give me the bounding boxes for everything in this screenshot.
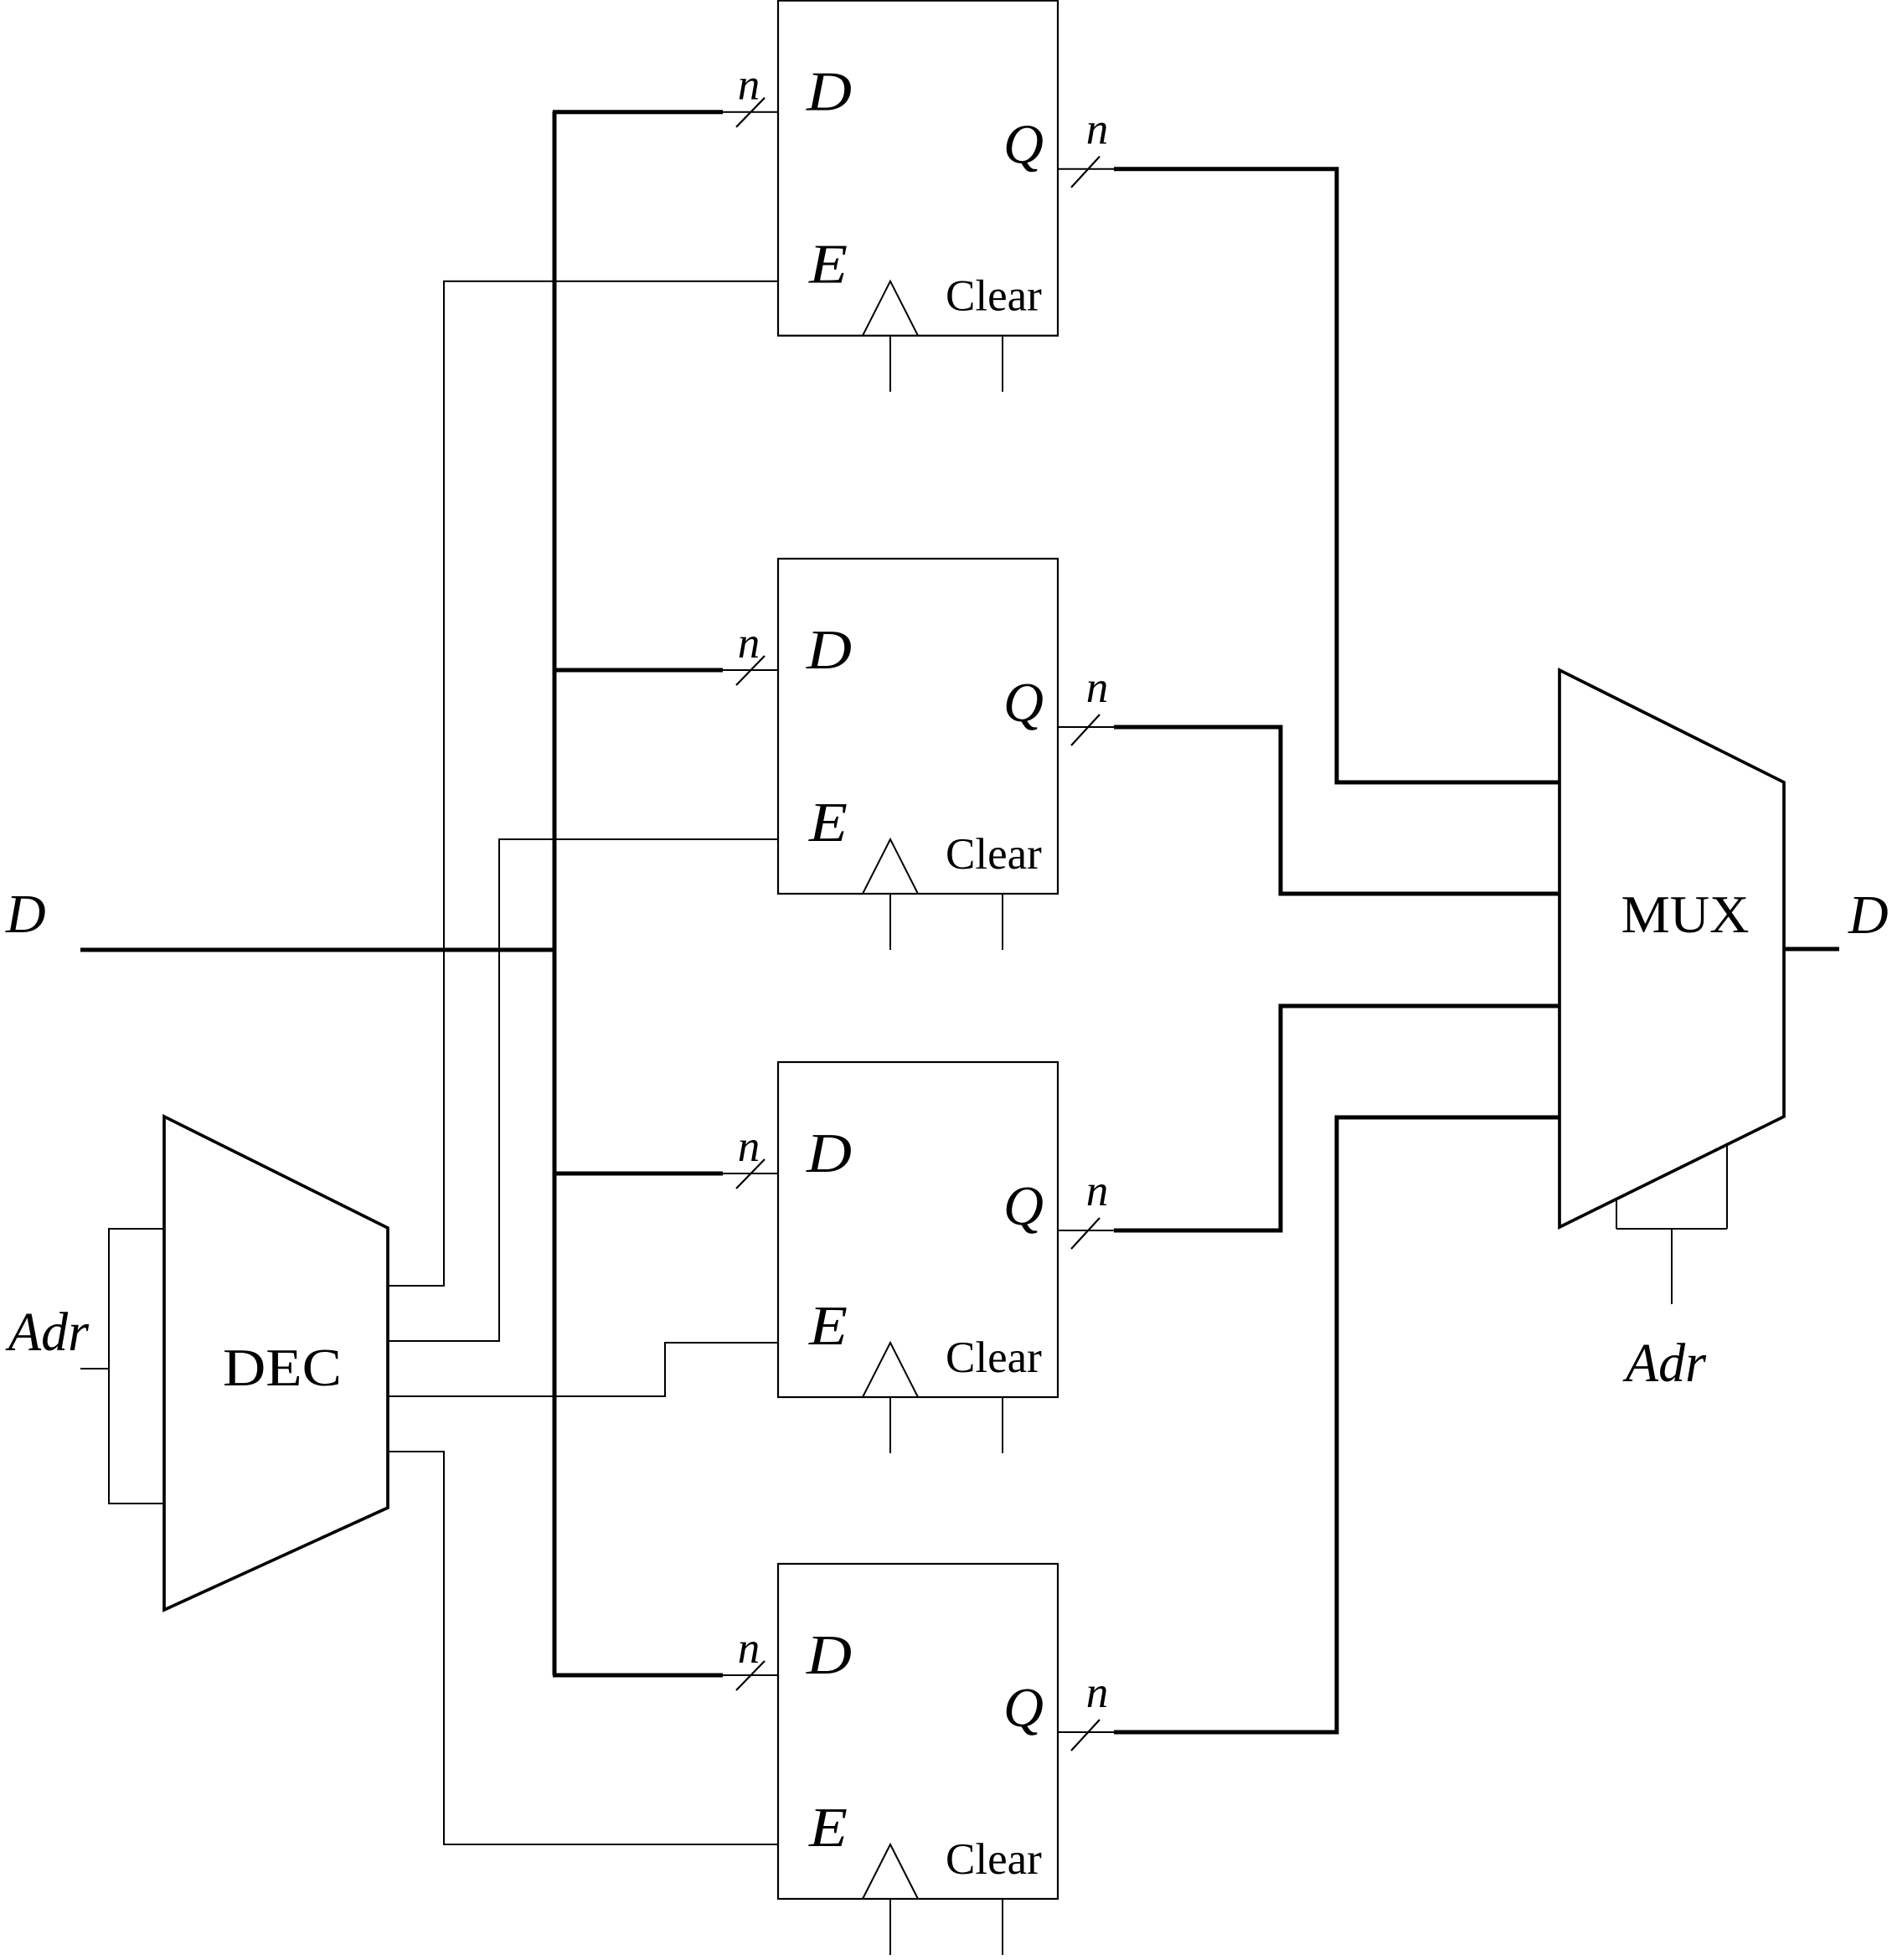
svg-text:D: D <box>806 61 852 123</box>
svg-text:n: n <box>738 1122 760 1171</box>
svg-text:n: n <box>1086 106 1109 154</box>
svg-text:E: E <box>808 792 848 854</box>
svg-text:D: D <box>1848 885 1889 946</box>
svg-text:Clear: Clear <box>946 830 1042 879</box>
svg-text:D: D <box>806 619 852 681</box>
svg-text:n: n <box>738 1624 760 1673</box>
svg-text:Clear: Clear <box>946 1333 1042 1382</box>
svg-text:Clear: Clear <box>946 1835 1042 1884</box>
svg-text:n: n <box>1086 663 1109 712</box>
svg-text:MUX: MUX <box>1621 885 1750 944</box>
svg-text:n: n <box>738 619 760 668</box>
svg-text:E: E <box>808 1797 848 1859</box>
svg-text:Q: Q <box>1003 114 1044 176</box>
svg-text:n: n <box>1086 1167 1109 1215</box>
svg-text:E: E <box>808 234 848 296</box>
svg-text:Adr: Adr <box>1622 1333 1706 1394</box>
svg-text:D: D <box>806 1122 852 1184</box>
svg-text:D: D <box>806 1624 852 1686</box>
svg-text:Adr: Adr <box>5 1302 89 1363</box>
svg-text:Clear: Clear <box>946 272 1042 321</box>
svg-text:Q: Q <box>1003 672 1044 734</box>
svg-text:DEC: DEC <box>223 1338 342 1397</box>
svg-text:Q: Q <box>1003 1677 1044 1739</box>
svg-text:n: n <box>1086 1669 1109 1717</box>
svg-text:D: D <box>5 884 46 945</box>
svg-text:Q: Q <box>1003 1175 1044 1237</box>
svg-text:E: E <box>808 1295 848 1357</box>
svg-text:n: n <box>738 61 760 110</box>
